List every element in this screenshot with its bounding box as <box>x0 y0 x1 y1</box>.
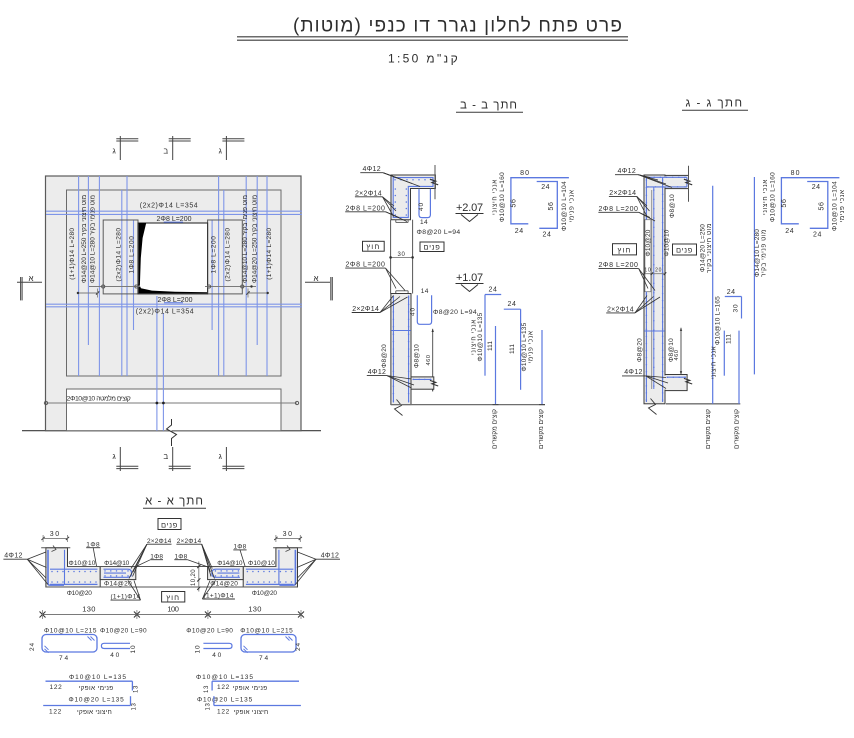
svg-text:14: 14 <box>421 288 429 295</box>
svg-text:Φ10@10 L=160: Φ10@10 L=160 <box>769 172 776 222</box>
svg-text:מוט פנימי בקיר Φ14@10 L=280: מוט פנימי בקיר Φ14@10 L=280 <box>90 195 97 283</box>
svg-text:2Φ8 L=200: 2Φ8 L=200 <box>598 206 638 213</box>
rebar vertical Re <box>218 176 220 376</box>
A-A left wall concrete <box>46 548 100 587</box>
svg-text:Φ10@10 L=215: Φ10@10 L=215 <box>240 627 293 634</box>
svg-text:2×2Φ14: 2×2Φ14 <box>355 190 382 197</box>
svg-text:Φ10@10 L=135: Φ10@10 L=135 <box>196 674 254 681</box>
B-B column stirrups <box>392 296 394 403</box>
svg-text:ג: ג <box>112 452 116 461</box>
svg-text:122: 122 <box>50 684 63 691</box>
A-A dim30 right <box>276 537 300 539</box>
svg-text:24: 24 <box>785 228 794 235</box>
svg-text:+1.07: +1.07 <box>456 272 483 284</box>
svg-text:13: 13 <box>206 703 212 711</box>
svg-text:Φ10@10 L=135: Φ10@10 L=135 <box>69 674 127 681</box>
svg-text:אנכי פנימי: אנכי פנימי <box>528 330 535 363</box>
rebar vertical Lf <box>133 220 135 330</box>
G-G dim 460 <box>680 328 682 375</box>
break symbol <box>167 419 177 446</box>
dowel line ext <box>495 326 497 405</box>
svg-text:460: 460 <box>426 355 432 366</box>
diagonal bar wedge vertical <box>139 223 147 285</box>
jamb dim left <box>89 286 140 288</box>
svg-text:Φ8@10: Φ8@10 <box>413 344 420 368</box>
B-B hanging stirrup <box>419 189 430 218</box>
svg-text:56: 56 <box>511 199 518 208</box>
svg-text:קוצים מלמטה 2Φ10@10: קוצים מלמטה 2Φ10@10 <box>67 395 131 403</box>
window jamb left <box>103 220 138 294</box>
A-A bottom face line <box>46 586 298 588</box>
hook1 right <box>212 680 299 682</box>
svg-text:(1+1)Φ14 L=280: (1+1)Φ14 L=280 <box>266 228 273 280</box>
svg-text:קוצים מקשרים: קוצים מקשרים <box>734 409 741 449</box>
svg-text:56: 56 <box>781 199 788 208</box>
svg-text:4Φ12: 4Φ12 <box>321 553 340 560</box>
svg-text:קוצים מקשרים: קוצים מקשרים <box>492 409 499 449</box>
svg-text:111: 111 <box>487 341 494 351</box>
svg-text:אנכי חיצוני: אנכי חיצוני <box>762 179 769 215</box>
elevation: inner rect <box>67 190 282 376</box>
svg-text:Φ10@10 L=215: Φ10@10 L=215 <box>44 627 97 634</box>
rebar vertical Rf <box>211 220 213 330</box>
shape L90 right <box>203 643 232 648</box>
svg-text:Φ10@10 L=104: Φ10@10 L=104 <box>832 181 839 231</box>
svg-text:56: 56 <box>819 202 826 211</box>
elevation: ground line <box>22 430 321 432</box>
G-G dowel line <box>738 331 740 404</box>
B-B sill notch <box>395 291 397 294</box>
svg-text:Φ14@10: Φ14@10 <box>104 560 130 567</box>
svg-text:מוט חיצוני בקיר: מוט חיצוני בקיר <box>706 223 713 273</box>
B-B lower column concrete <box>391 294 411 405</box>
svg-text:ב: ב <box>163 452 168 461</box>
svg-text:Φ10@20: Φ10@20 <box>252 590 278 597</box>
lower dim right <box>247 292 268 294</box>
A-A left strip rebar <box>50 568 98 570</box>
rebar vertical Lc <box>98 176 100 376</box>
G-G top slab <box>665 175 689 188</box>
G-G long line int bar <box>753 177 755 374</box>
svg-text:(2x2)Φ14 L=354: (2x2)Φ14 L=354 <box>136 308 194 315</box>
A-A huts box <box>162 592 185 603</box>
U-bar diagram near B-B <box>492 170 576 238</box>
rebar vertical Le <box>126 176 128 376</box>
svg-text:4Φ12: 4Φ12 <box>4 553 23 560</box>
U-bar diagram near G-G <box>762 170 846 238</box>
rebar vertical center pair <box>156 296 158 431</box>
window jamb right <box>208 220 243 294</box>
svg-text:130: 130 <box>248 605 262 614</box>
svg-text:10,20: 10,20 <box>191 569 197 586</box>
A-A dim line <box>43 614 302 616</box>
rebar horizontal pair top <box>46 210 302 212</box>
svg-text:122: 122 <box>49 708 62 715</box>
B-B break <box>395 400 403 416</box>
svg-text:א: א <box>28 274 33 283</box>
cut marker left aleph <box>17 281 42 283</box>
svg-text:Φ8@20 L=94: Φ8@20 L=94 <box>433 309 477 316</box>
B-B lintel break flash <box>430 179 438 185</box>
svg-text:Φ10@10: Φ10@10 <box>663 229 670 256</box>
rebar horizontal pair bottom <box>46 303 302 305</box>
cut marker top gimel2 <box>225 136 227 160</box>
A-A pnim box <box>158 519 181 530</box>
section B-B <box>345 165 545 416</box>
svg-text:40: 40 <box>418 202 425 211</box>
svg-text:30: 30 <box>50 531 61 538</box>
lower dim left <box>78 292 99 294</box>
title underline <box>237 36 628 38</box>
rebar shape diagrams <box>29 627 302 716</box>
elevation: bottom strip <box>67 389 282 431</box>
dowel line int <box>541 330 543 405</box>
B-B ground <box>391 404 545 406</box>
svg-text:Φ10@10 L=165: Φ10@10 L=165 <box>715 296 722 345</box>
svg-text:(2x2)Φ14 L=280: (2x2)Φ14 L=280 <box>116 227 123 281</box>
G-G pnim box <box>673 244 697 255</box>
bar shape int 24 leg <box>504 308 521 310</box>
G-G white slot <box>645 220 651 292</box>
svg-text:Φ8@10: Φ8@10 <box>669 194 676 218</box>
svg-text:2×2Φ14: 2×2Φ14 <box>609 190 636 197</box>
svg-text:מוט פנימי בקיר Φ14@10 L=280: מוט פנימי בקיר Φ14@10 L=280 <box>242 195 249 283</box>
svg-text:74: 74 <box>59 655 70 662</box>
A-A dim 10/20 <box>198 562 200 592</box>
cut marker right aleph <box>305 281 330 283</box>
rebar vertical Rb <box>256 176 258 345</box>
svg-text:2Φ8 L=200: 2Φ8 L=200 <box>345 205 385 212</box>
svg-text:111: 111 <box>509 344 516 354</box>
svg-text:80: 80 <box>520 170 530 177</box>
A-A right strip rebar <box>246 568 294 570</box>
svg-text:24: 24 <box>295 642 302 651</box>
svg-text:1Φ8 L=200: 1Φ8 L=200 <box>211 236 218 274</box>
svg-text:10: 10 <box>195 645 202 654</box>
G-G long line ext bar <box>712 186 714 404</box>
rebar vertical Ld <box>121 190 123 376</box>
svg-text:30: 30 <box>283 531 294 538</box>
G-G top break flash <box>684 179 692 185</box>
G-G column concrete <box>644 175 665 404</box>
B-B dim 30 <box>391 256 413 258</box>
svg-text:פנימי אופקי: פנימי אופקי <box>232 685 267 692</box>
svg-text:24: 24 <box>541 184 550 191</box>
svg-text:(2x2)Φ14 L=354: (2x2)Φ14 L=354 <box>140 202 198 209</box>
svg-text:חתך ב - ב: חתך ב - ב <box>460 100 518 112</box>
window opening <box>138 223 208 294</box>
B-B wall face above lintel <box>434 165 436 199</box>
svg-text:חיצוני אופקי: חיצוני אופקי <box>77 709 112 716</box>
diagonal bar wedge horizontal <box>139 284 207 294</box>
elevation: outer wall <box>46 176 302 431</box>
svg-text:קוצים מקשרים: קוצים מקשרים <box>538 409 545 449</box>
svg-text:חיצוני אופקי: חיצוני אופקי <box>234 709 269 716</box>
G-G stirrup right <box>662 177 664 402</box>
cut marker bottom bet <box>172 447 174 471</box>
svg-text:Φ10@20 L=135: Φ10@20 L=135 <box>68 696 124 703</box>
svg-text:מוט חיצוני בקיר Φ14@20 L=250: מוט חיצוני בקיר Φ14@20 L=250 <box>81 195 88 283</box>
A-A left jamb return <box>100 567 136 580</box>
svg-text:פרט פתח לחלון נגרר דו כנפי (מו: פרט פתח לחלון נגרר דו כנפי (מוטות) <box>293 16 623 37</box>
rebar vertical Rc <box>245 176 247 376</box>
svg-text:40: 40 <box>212 652 223 659</box>
shape L215 left <box>42 635 97 653</box>
svg-text:חוץ: חוץ <box>618 246 632 255</box>
svg-text:חוץ: חוץ <box>166 593 180 602</box>
svg-text:100: 100 <box>167 605 178 614</box>
svg-text:קנ"מ 1:50: קנ"מ 1:50 <box>388 52 460 66</box>
B-B lintel rebar outline <box>393 178 433 218</box>
svg-text:4Φ12: 4Φ12 <box>618 168 637 175</box>
hook1 left <box>46 680 133 682</box>
G-G slab rebar <box>647 176 687 178</box>
A-A left jamb U <box>104 569 132 577</box>
svg-text:122: 122 <box>217 684 230 691</box>
svg-text:14: 14 <box>420 219 428 226</box>
svg-text:40: 40 <box>410 307 417 316</box>
svg-text:56: 56 <box>548 202 555 211</box>
bar shape ext 24 leg <box>485 294 501 296</box>
svg-text:אנכי חיצוני: אנכי חיצוני <box>711 346 718 379</box>
svg-text:Φ8@20: Φ8@20 <box>637 338 644 362</box>
cut marker top gimel1 <box>119 136 121 160</box>
svg-text:(2x2)Φ14 L=280: (2x2)Φ14 L=280 <box>225 227 232 281</box>
B-B top notch <box>395 220 397 223</box>
svg-text:Φ10@10 L=135: Φ10@10 L=135 <box>477 312 484 361</box>
svg-text:24: 24 <box>727 289 736 296</box>
svg-text:Φ10@10: Φ10@10 <box>69 560 96 567</box>
B-B label pnim box <box>420 242 444 252</box>
svg-text:13: 13 <box>131 703 137 711</box>
A-A right col rebar <box>294 550 296 584</box>
svg-text:קוצים מקשרים: קוצים מקשרים <box>705 409 712 449</box>
G-G break <box>649 399 657 415</box>
svg-text:Φ14@10: Φ14@10 <box>217 560 243 567</box>
svg-text:פנים: פנים <box>161 520 178 529</box>
svg-text:חתך א - א: חתך א - א <box>145 496 204 508</box>
elevation view <box>17 136 332 471</box>
svg-text:א: א <box>313 274 318 283</box>
rebar vertical Lb <box>87 176 89 345</box>
B-B left wall face <box>390 220 392 294</box>
A-A right jamb return <box>208 567 244 580</box>
svg-text:111: 111 <box>726 334 733 344</box>
svg-text:10: 10 <box>130 645 137 654</box>
svg-text:Φ10@20 L=90: Φ10@20 L=90 <box>100 627 147 634</box>
svg-text:122: 122 <box>217 708 230 715</box>
svg-text:40: 40 <box>110 652 121 659</box>
G-G bottom slab <box>665 375 687 391</box>
G-G stirrup zone line <box>644 330 665 332</box>
svg-text:Φ10@10 L=104: Φ10@10 L=104 <box>561 181 568 231</box>
svg-text:13: 13 <box>204 685 210 693</box>
rebar vertical Rd <box>223 190 225 376</box>
B-B lintel rebar dots <box>394 179 396 181</box>
svg-text:30: 30 <box>398 252 406 258</box>
B-B right annotations <box>470 287 545 449</box>
svg-text:4Φ12: 4Φ12 <box>368 369 387 376</box>
B-B dim 460 <box>432 329 434 392</box>
cut marker top bet <box>172 136 174 160</box>
svg-text:130: 130 <box>82 605 96 614</box>
svg-text:Φ10@20 L=135: Φ10@20 L=135 <box>197 696 253 703</box>
svg-text:חוץ: חוץ <box>366 242 380 251</box>
B-B sill stirrup U <box>417 295 431 324</box>
svg-text:פנים: פנים <box>424 243 441 252</box>
U-bar inner <box>537 182 558 229</box>
G-G wall face right top <box>688 166 690 202</box>
svg-text:80: 80 <box>791 170 801 177</box>
U-bar inner <box>807 182 828 229</box>
svg-text:Φ8@20: Φ8@20 <box>381 344 388 368</box>
A-A top face line <box>68 566 276 568</box>
svg-text:אנכי פנימי: אנכי פנימי <box>569 189 576 222</box>
svg-text:10: 10 <box>644 267 651 273</box>
G-G vert anchor line <box>723 331 725 376</box>
A-A left col rebar <box>47 550 49 584</box>
U-bar outer <box>511 178 569 224</box>
cut marker bottom gimel2 <box>225 447 227 471</box>
svg-text:פנים: פנים <box>676 246 693 255</box>
svg-text:מוט פנימי בקיר: מוט פנימי בקיר <box>760 229 767 277</box>
hook2 right <box>214 705 301 707</box>
svg-text:4Φ12: 4Φ12 <box>362 166 381 173</box>
B-B label huts box <box>363 241 385 251</box>
svg-text:Φ8@20 L=94: Φ8@20 L=94 <box>417 229 461 236</box>
svg-text:24: 24 <box>515 228 524 235</box>
rebar vertical La <box>78 176 80 376</box>
svg-text:24: 24 <box>508 301 517 308</box>
svg-text:20: 20 <box>655 267 662 273</box>
U-bar outer <box>781 178 839 224</box>
B-B slab <box>411 377 434 389</box>
A-A col top lines <box>41 547 70 549</box>
svg-text:13: 13 <box>133 685 139 693</box>
svg-text:1Φ8 L=200: 1Φ8 L=200 <box>129 236 136 274</box>
A-A dim30 left <box>43 537 67 539</box>
G-G huts box <box>613 244 637 255</box>
svg-text:+2.07: +2.07 <box>456 202 483 214</box>
G-G L shape 24/30 <box>725 296 742 298</box>
svg-text:(1+1)Φ14 L=280: (1+1)Φ14 L=280 <box>69 228 76 280</box>
svg-text:30: 30 <box>732 304 739 313</box>
svg-text:Φ14@20: Φ14@20 <box>104 581 132 588</box>
A-A right wall concrete <box>243 548 297 587</box>
svg-text:אנכי חיצוני: אנכי חיצוני <box>492 179 499 215</box>
svg-text:Φ10@10: Φ10@10 <box>248 560 275 567</box>
svg-text:ג: ג <box>112 147 116 156</box>
svg-text:Φ10@20: Φ10@20 <box>645 229 652 256</box>
svg-text:חתך ג - ג: חתך ג - ג <box>685 98 743 110</box>
svg-text:24: 24 <box>543 232 552 239</box>
svg-text:24: 24 <box>812 184 821 191</box>
shape L90 left <box>101 643 130 648</box>
B-B stirrup zone line <box>391 330 411 332</box>
svg-text:460: 460 <box>674 350 680 361</box>
rebar vertical Ra <box>266 176 268 376</box>
svg-text:פנימי אופקי: פנימי אופקי <box>78 685 113 692</box>
svg-text:24: 24 <box>29 642 36 651</box>
svg-text:מוט חיצוני בקיר Φ14@20 L=250: מוט חיצוני בקיר Φ14@20 L=250 <box>252 195 259 283</box>
B-B lintel concrete <box>391 175 435 220</box>
svg-text:Φ10@10 L=160: Φ10@10 L=160 <box>499 172 506 222</box>
section A-A <box>3 519 340 620</box>
G-G stirrup left <box>645 177 647 220</box>
svg-text:Φ10@20 L=90: Φ10@20 L=90 <box>186 627 233 634</box>
shape L215 right <box>241 635 296 653</box>
svg-text:אנכי פנימי: אנכי פנימי <box>839 189 846 222</box>
svg-text:ב: ב <box>163 147 168 156</box>
svg-text:24: 24 <box>813 232 822 239</box>
svg-text:24: 24 <box>489 287 498 294</box>
hook2 left <box>43 705 130 707</box>
G-G ground <box>666 403 740 405</box>
G-G divider rebar <box>651 190 653 389</box>
B-B right wall face <box>412 220 414 294</box>
A-A right jamb U <box>212 569 240 577</box>
svg-text:74: 74 <box>259 655 270 662</box>
A-A col top breaks <box>52 546 57 552</box>
svg-text:4Φ12: 4Φ12 <box>624 369 643 376</box>
cut marker bottom gimel1 <box>119 447 121 471</box>
dowel dim line <box>46 402 297 404</box>
svg-text:Φ10@20: Φ10@20 <box>67 590 93 597</box>
section G-G <box>598 166 767 449</box>
jamb dim right <box>205 286 256 288</box>
